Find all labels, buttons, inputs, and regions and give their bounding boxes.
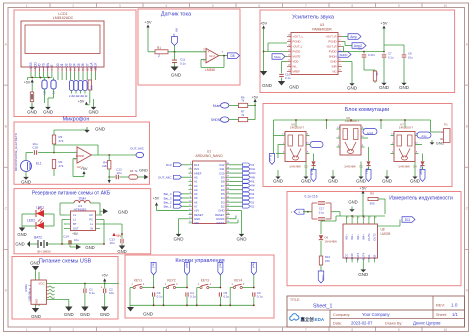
svg-text:NC: NC — [332, 70, 336, 74]
svg-text:GND: GND — [379, 85, 390, 90]
svg-text:0.1u: 0.1u — [388, 56, 394, 60]
svg-text:Key2: Key2 — [185, 262, 188, 268]
svg-text:+OUT_R: +OUT_R — [325, 35, 336, 39]
svg-text:R6: R6 — [130, 169, 134, 173]
svg-text:C18: C18 — [32, 146, 38, 150]
svg-text:2.2k: 2.2k — [83, 94, 89, 98]
svg-text:GND: GND — [410, 179, 421, 184]
svg-text:4: 4 — [165, 328, 167, 332]
svg-text:0.1u: 0.1u — [157, 295, 163, 299]
svg-text:GND: GND — [31, 314, 41, 319]
svg-text:GND: GND — [356, 179, 367, 184]
svg-text:GND: GND — [348, 200, 357, 205]
svg-text:1.0: 1.0 — [451, 303, 458, 308]
svg-text:+5V: +5V — [144, 20, 152, 25]
svg-text:Mute: Mute — [213, 104, 221, 108]
svg-text:1: 1 — [26, 4, 28, 8]
svg-text:BT: BT — [73, 222, 77, 226]
svg-text:U2.2: U2.2 — [209, 54, 215, 58]
svg-text:EDA: EDA — [315, 317, 325, 322]
svg-text:Питание схемы USB: Питание схемы USB — [39, 258, 92, 264]
svg-text:Sheet_1: Sheet_1 — [313, 304, 332, 310]
svg-text:IN2-: IN2- — [373, 254, 377, 259]
svg-text:OUT_MIC: OUT_MIC — [158, 176, 172, 180]
svg-text:390: 390 — [369, 202, 374, 206]
svg-text:Rel_L: Rel_L — [365, 168, 368, 175]
svg-text:GND: GND — [64, 312, 74, 317]
svg-text:IN1+: IN1+ — [345, 234, 349, 240]
svg-text:Amp: Amp — [350, 35, 357, 39]
svg-text:VDD: VDD — [293, 60, 299, 64]
svg-text:RlN: RlN — [251, 177, 255, 179]
svg-text:U8: U8 — [381, 228, 385, 232]
svg-text:10u: 10u — [32, 142, 37, 146]
svg-text:6: 6 — [258, 4, 260, 8]
svg-text:D11: D11 — [405, 218, 411, 222]
svg-text:1: 1 — [26, 328, 28, 332]
svg-text:0.1u: 0.1u — [89, 291, 95, 295]
svg-text:C4: C4 — [358, 47, 362, 51]
svg-text:B_ul: B_ul — [269, 155, 273, 161]
svg-text:GND: GND — [17, 232, 26, 237]
svg-text:GND: GND — [95, 127, 106, 132]
svg-text:47k: 47k — [59, 164, 64, 168]
svg-text:D8: D8 — [230, 54, 234, 58]
svg-text:Кнопки управления: Кнопки управления — [175, 258, 224, 264]
svg-text:2023-02-07: 2023-02-07 — [351, 321, 373, 326]
svg-text:10: 10 — [443, 4, 447, 8]
svg-text:IN4+: IN4+ — [361, 234, 365, 240]
svg-text:L1: L1 — [73, 213, 76, 217]
svg-text:MUTE: MUTE — [293, 55, 301, 59]
svg-text:VCC: VCC — [38, 282, 45, 286]
svg-text:9: 9 — [398, 4, 400, 8]
svg-text:GND: GND — [27, 110, 38, 115]
svg-text:8: 8 — [351, 4, 353, 8]
svg-text:5: 5 — [212, 4, 214, 8]
svg-text:IN: IN — [90, 227, 93, 231]
svg-text:Your Company: Your Company — [362, 312, 390, 317]
svg-text:L: L — [299, 210, 301, 214]
svg-text:EL1: EL1 — [36, 162, 42, 166]
svg-text:+: + — [101, 286, 103, 290]
svg-text:1/1: 1/1 — [452, 312, 458, 317]
svg-text:GND: GND — [273, 179, 284, 184]
svg-text:U1: U1 — [207, 150, 211, 154]
svg-text:GND: GND — [237, 237, 248, 242]
svg-text:KEY1: KEY1 — [134, 279, 142, 283]
svg-text:Денис Цупров: Денис Цупров — [413, 321, 441, 326]
svg-text:SHDN: SHDN — [329, 55, 337, 59]
svg-text:1N4148W: 1N4148W — [344, 165, 356, 169]
svg-text:3: 3 — [119, 4, 121, 8]
svg-text:9: 9 — [398, 328, 400, 332]
svg-text:+OUT_L: +OUT_L — [293, 35, 304, 39]
svg-text:RlA: RlA — [251, 185, 255, 188]
svg-text:10: 10 — [443, 328, 447, 332]
svg-text:R9: R9 — [370, 192, 374, 196]
svg-text:BH 18650: BH 18650 — [37, 250, 51, 254]
svg-text:+5V: +5V — [72, 232, 79, 236]
svg-text:+5V: +5V — [153, 197, 160, 201]
svg-text:0.1u: 0.1u — [180, 61, 186, 65]
svg-text:0.1u: 0.1u — [190, 295, 196, 299]
svg-text:GND: GND — [347, 86, 358, 91]
svg-text:2: 2 — [72, 4, 74, 8]
svg-text:22k: 22k — [102, 164, 107, 168]
svg-text:Drawn By:: Drawn By: — [385, 322, 403, 326]
svg-text:SHDN: SHDN — [211, 118, 221, 122]
svg-text:GND: GND — [30, 261, 40, 266]
svg-text:-OUT_L: -OUT_L — [293, 45, 303, 49]
svg-text:LM358: LM358 — [205, 68, 215, 72]
svg-text:Z1: Z1 — [375, 72, 379, 76]
svg-text:L2: L2 — [73, 218, 76, 222]
svg-text:VCC: VCC — [345, 254, 349, 260]
svg-text:GND: GND — [330, 60, 336, 64]
svg-text:Key3: Key3 — [218, 262, 221, 268]
svg-text:GND: GND — [35, 298, 39, 306]
svg-text:6: 6 — [258, 328, 260, 332]
svg-text:IN3+: IN3+ — [356, 234, 360, 240]
svg-text:Sheet:: Sheet: — [436, 313, 447, 317]
svg-text:BAT2: BAT2 — [34, 236, 42, 240]
svg-text:GND: GND — [174, 237, 185, 242]
svg-text:GND: GND — [80, 312, 90, 317]
svg-text:3: 3 — [119, 328, 121, 332]
svg-text:INL: INL — [293, 65, 298, 69]
svg-text:+5V: +5V — [252, 95, 259, 99]
svg-text:0.47u: 0.47u — [368, 53, 375, 57]
svg-text:GND: GND — [399, 85, 410, 90]
svg-text:KEY2: KEY2 — [167, 279, 175, 283]
svg-text:KEY3: KEY3 — [201, 279, 209, 283]
svg-text:-OUT_R: -OUT_R — [326, 45, 336, 49]
svg-text:+5V: +5V — [101, 274, 108, 278]
svg-text:Bat_1: Bat_1 — [164, 205, 172, 209]
svg-text:GND: GND — [328, 179, 339, 184]
svg-text:KEY4: KEY4 — [234, 279, 242, 283]
svg-text:R8: R8 — [175, 28, 179, 32]
svg-text:GND: GND — [89, 110, 100, 115]
svg-text:OUT2: OUT2 — [373, 233, 377, 241]
svg-text:GND: GND — [358, 272, 369, 277]
svg-text:+5V: +5V — [24, 81, 31, 85]
svg-text:10u: 10u — [116, 171, 121, 175]
svg-text:100: 100 — [90, 85, 94, 90]
svg-text:PVDD: PVDD — [293, 50, 301, 54]
svg-text:+5V: +5V — [359, 186, 367, 191]
svg-text:TITLE:: TITLE: — [290, 298, 300, 302]
svg-text:PGND: PGND — [328, 40, 336, 44]
svg-text:Key1: Key1 — [152, 262, 155, 268]
svg-text:D1/TX: D1/TX — [217, 221, 225, 225]
svg-text:Измеритель индуктивности: Измеритель индуктивности — [389, 196, 453, 202]
svg-text:0.1u: 0.1u — [223, 295, 229, 299]
svg-text:GND: GND — [382, 179, 393, 184]
svg-text:GND: GND — [143, 312, 154, 317]
svg-text:GND: GND — [118, 210, 129, 215]
svg-text:E: E — [50, 64, 54, 66]
svg-text:LM8162ADC: LM8162ADC — [53, 16, 74, 20]
svg-text:D11: D11 — [321, 275, 325, 281]
svg-text:1462000-7: 1462000-7 — [399, 126, 414, 130]
svg-text:OUT: OUT — [73, 227, 79, 231]
svg-text:GND: GND — [21, 180, 32, 185]
svg-text:Amp: Amp — [422, 135, 428, 138]
svg-text:PVDD: PVDD — [329, 50, 337, 54]
svg-text:0.1u: 0.1u — [285, 76, 291, 80]
svg-text:P1: P1 — [444, 123, 448, 127]
svg-text:REV:: REV: — [436, 303, 445, 308]
svg-text:GND: GND — [15, 242, 24, 247]
svg-text:Резервное питание схемы от АКБ: Резервное питание схемы от АКБ — [32, 191, 111, 197]
svg-text:Company:: Company: — [333, 313, 350, 317]
svg-text:GND: GND — [117, 249, 126, 254]
svg-text:R10: R10 — [251, 173, 256, 175]
svg-text:10u: 10u — [109, 241, 114, 245]
svg-text:47k: 47k — [59, 139, 64, 143]
svg-text:OUT_MIC: OUT_MIC — [130, 146, 145, 150]
svg-text:GND: GND — [350, 253, 354, 259]
svg-text:GND: GND — [301, 179, 312, 184]
svg-text:+5V: +5V — [380, 21, 388, 26]
svg-text:C14: C14 — [63, 235, 69, 239]
svg-text:8: 8 — [351, 328, 353, 332]
svg-text:GND: GND — [289, 85, 299, 90]
svg-text:+5V: +5V — [78, 100, 85, 104]
svg-text:AC: AC — [89, 213, 93, 217]
svg-text:嘉立创: 嘉立创 — [300, 316, 315, 323]
svg-text:MICROPHONE_ELETRETO: MICROPHONE_ELETRETO — [14, 132, 18, 171]
svg-text:Mute: Mute — [274, 55, 281, 59]
svg-text:Датчик тока: Датчик тока — [161, 12, 192, 18]
svg-text:IN2+: IN2+ — [350, 234, 354, 240]
svg-text:GND: GND — [139, 168, 148, 173]
svg-text:D13: D13 — [166, 163, 172, 167]
svg-text:0.1u C16: 0.1u C16 — [305, 194, 318, 198]
svg-text:GND: GND — [100, 312, 110, 317]
svg-text:GND: GND — [171, 73, 182, 78]
svg-text:Date:: Date: — [333, 322, 342, 326]
svg-text:1462000-7: 1462000-7 — [290, 126, 305, 130]
svg-text:Key4: Key4 — [252, 262, 255, 268]
svg-text:Amp3: Amp3 — [367, 132, 374, 135]
svg-text:Rel_N: Rel_N — [310, 168, 313, 175]
svg-text:+5V: +5V — [115, 234, 122, 238]
svg-text:10u: 10u — [408, 56, 413, 60]
svg-text:LED2: LED2 — [27, 219, 35, 223]
svg-text:1N4148W: 1N4148W — [398, 165, 410, 169]
svg-text:0.1u: 0.1u — [257, 295, 263, 299]
svg-text:LM358: LM358 — [76, 154, 84, 158]
svg-text:U3: U3 — [320, 23, 324, 27]
svg-text:Rel_AMP: Rel_AMP — [419, 165, 422, 175]
svg-text:Микрофон: Микрофон — [63, 117, 90, 123]
svg-text:7: 7 — [305, 4, 307, 8]
svg-text:Усилитель звука: Усилитель звука — [292, 15, 335, 21]
svg-text:4: 4 — [165, 4, 167, 8]
svg-text:7: 7 — [305, 328, 307, 332]
svg-text:2: 2 — [158, 54, 160, 58]
svg-text:PAM8403DR: PAM8403DR — [312, 28, 332, 32]
svg-text:VREF: VREF — [293, 70, 301, 74]
svg-text:ARDUINO_NANO: ARDUINO_NANO — [195, 154, 223, 158]
svg-text:GND: GND — [85, 245, 94, 250]
svg-text:OUT3: OUT3 — [356, 252, 360, 260]
svg-text:OUT1: OUT1 — [367, 233, 371, 241]
svg-text:10u: 10u — [109, 291, 114, 295]
svg-text:Блок коммутации: Блок коммутации — [345, 107, 390, 113]
svg-text:5: 5 — [212, 328, 214, 332]
svg-text:LM339: LM339 — [381, 232, 391, 236]
svg-text:SHDN: SHDN — [340, 53, 348, 57]
svg-text:VIN: VIN — [194, 221, 199, 225]
svg-text:PGND: PGND — [293, 40, 301, 44]
svg-text:INR: INR — [332, 65, 337, 69]
svg-text:2: 2 — [72, 328, 74, 332]
svg-text:1N4148W: 1N4148W — [289, 165, 301, 169]
svg-text:150: 150 — [325, 259, 330, 263]
svg-text:+5V: +5V — [260, 21, 268, 26]
svg-text:PC: PC — [89, 218, 93, 222]
svg-text:0.1u: 0.1u — [319, 211, 325, 215]
svg-text:IN1-: IN1- — [367, 254, 371, 259]
svg-text:1N4148W: 1N4148W — [325, 240, 338, 244]
svg-text:+5V: +5V — [80, 166, 88, 171]
svg-text:GND: GND — [43, 110, 54, 115]
svg-text:GND: GND — [262, 83, 272, 88]
svg-text:10u: 10u — [74, 238, 79, 242]
svg-text:OUT4: OUT4 — [361, 252, 365, 260]
